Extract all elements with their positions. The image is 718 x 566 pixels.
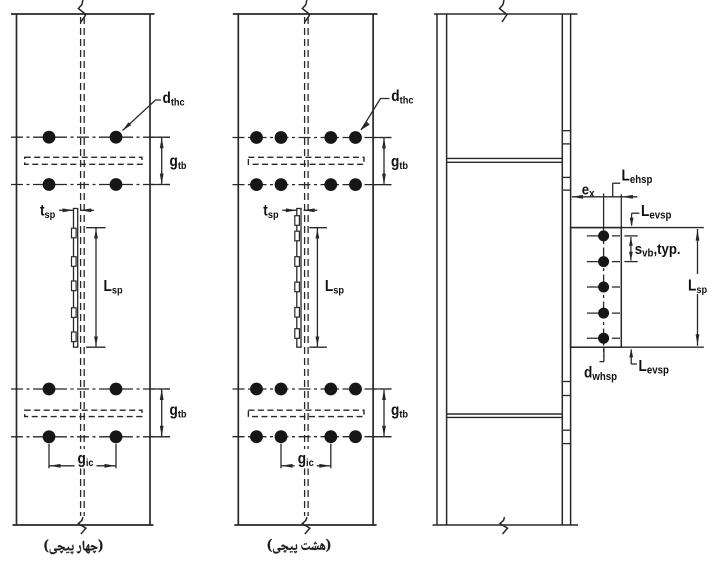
svg-text:svb,typ.: svb,typ.: [635, 240, 681, 260]
